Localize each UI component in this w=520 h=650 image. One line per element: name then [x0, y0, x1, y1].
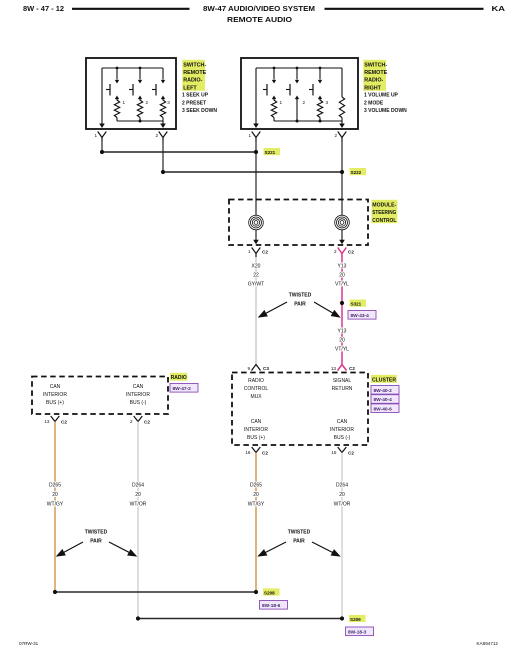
- switch contact blade 3: [309, 84, 313, 96]
- wire top bus right box: [256, 67, 342, 69]
- svg-text:RADIO-: RADIO-: [183, 78, 202, 84]
- resistor 3: [160, 100, 170, 121]
- twisted pair upper right arrow: [314, 302, 340, 317]
- svg-text:3: 3: [326, 100, 329, 105]
- resistor 1: [114, 100, 125, 121]
- svg-text:3: 3: [167, 100, 170, 105]
- svg-text:20: 20: [52, 492, 58, 498]
- splice S209 bus: [138, 618, 342, 620]
- svg-text:CAN: CAN: [251, 419, 262, 425]
- svg-text:S321: S321: [351, 301, 362, 306]
- svg-text:1: 1: [123, 100, 126, 105]
- svg-text:07RW-31: 07RW-31: [19, 641, 39, 646]
- junction dot S208 right: [254, 590, 258, 594]
- label switch-remote-radio-left: [182, 60, 206, 92]
- svg-text:2 MODE: 2 MODE: [364, 100, 384, 106]
- resistor 2: [137, 100, 148, 121]
- svg-text:WT/GY: WT/GY: [248, 502, 265, 508]
- wire switch branch 3 drop: [318, 68, 322, 84]
- svg-text:S222: S222: [351, 170, 362, 175]
- svg-text:20: 20: [339, 273, 345, 279]
- svg-text:2: 2: [334, 133, 337, 138]
- junction dot S209 left: [136, 616, 140, 620]
- twisted pair upper left arrow: [259, 302, 287, 317]
- header rule left: [72, 8, 190, 10]
- svg-text:C2: C2: [348, 250, 354, 255]
- svg-text:8W-40-4: 8W-40-4: [374, 397, 393, 403]
- connector radio pin 2 C2: [130, 416, 150, 425]
- svg-text:INTERIOR: INTERIOR: [126, 392, 150, 398]
- svg-text:1: 1: [94, 133, 97, 138]
- junction dot right box bus a: [296, 120, 299, 123]
- junction dot left box top bus b: [139, 67, 142, 70]
- splice S221 bus: [102, 151, 256, 153]
- svg-text:REMOTE: REMOTE: [364, 70, 387, 76]
- svg-text:15: 15: [331, 450, 337, 455]
- switch contact blade 2: [129, 84, 133, 96]
- link 8W-18-3: [346, 627, 374, 636]
- link 8W-43-4: [348, 311, 376, 320]
- label CLUSTER: [371, 375, 397, 384]
- svg-text:C2: C2: [348, 451, 354, 456]
- svg-text:C2: C2: [262, 451, 268, 456]
- switch lower contact 2: [138, 96, 142, 101]
- junction dot right box top bus a: [273, 67, 276, 70]
- cluster box: [232, 373, 368, 446]
- svg-text:PAIR: PAIR: [293, 539, 305, 545]
- junction dot S222 left: [161, 170, 165, 174]
- svg-text:13: 13: [44, 419, 50, 424]
- wire switch branch 3 drop: [161, 68, 165, 84]
- label S221: [264, 148, 281, 155]
- wire D265 WT/GY radio orange: [54, 422, 56, 593]
- label S222: [350, 168, 367, 175]
- switch contact blade 3: [152, 84, 156, 96]
- switch contact blade 2: [286, 84, 290, 96]
- svg-text:8W-47 AUDIO/VIDEO SYSTEM: 8W-47 AUDIO/VIDEO SYSTEM: [203, 4, 315, 13]
- svg-text:20: 20: [339, 338, 345, 344]
- svg-text:S209: S209: [350, 617, 361, 622]
- svg-text:MUX: MUX: [250, 394, 262, 400]
- wire left box pin1 vertical: [99, 68, 105, 128]
- wire D264 WT/OR cluster gray: [341, 453, 343, 619]
- junction dot right box top bus c: [319, 67, 322, 70]
- wire branch 2: [297, 99, 306, 121]
- svg-text:TWISTED: TWISTED: [288, 530, 311, 536]
- switch remote radio left box: [86, 58, 176, 129]
- svg-text:2: 2: [146, 100, 149, 105]
- connector right box pin 2: [334, 132, 346, 142]
- switch lower contact 3: [318, 96, 322, 101]
- wire bottom bus left box: [117, 120, 163, 122]
- svg-text:KA894712: KA894712: [477, 641, 499, 646]
- label S209: [349, 615, 366, 622]
- connector module pin 1 C2: [248, 248, 268, 258]
- svg-text:CONTROL: CONTROL: [372, 218, 397, 224]
- svg-text:20: 20: [339, 492, 345, 498]
- wire switch branch 1 drop: [115, 68, 119, 84]
- svg-text:WT/OR: WT/OR: [130, 502, 147, 508]
- label module steering control: [372, 200, 398, 224]
- wire top bus left box: [102, 67, 163, 69]
- wire D265 WT/GY cluster orange: [255, 453, 257, 593]
- wire switch branch 2 drop: [295, 68, 299, 84]
- connector cluster pin 15 C2 bottom: [331, 447, 354, 456]
- connector cluster pin 16 C2 bottom: [245, 447, 268, 456]
- svg-text:Y13: Y13: [338, 264, 347, 270]
- svg-text:C2: C2: [349, 366, 355, 371]
- svg-text:RADIO: RADIO: [171, 375, 187, 381]
- switch lower contact 2: [295, 96, 299, 101]
- link 8W-18-6: [260, 601, 288, 610]
- junction dot right box bus b: [319, 120, 322, 123]
- svg-text:LEFT: LEFT: [183, 85, 197, 91]
- svg-text:SWITCH-: SWITCH-: [364, 62, 387, 68]
- connector cluster pin 13 C2 top: [331, 365, 355, 372]
- svg-text:STEERING: STEERING: [372, 210, 396, 216]
- wire right box pin2 vertical: [339, 121, 345, 128]
- svg-text:1: 1: [248, 133, 251, 138]
- wire right pin2 down: [341, 142, 343, 201]
- svg-text:C3: C3: [263, 366, 269, 371]
- svg-text:D265: D265: [250, 483, 262, 489]
- resistor right box fixed: [339, 97, 344, 118]
- svg-text:20: 20: [253, 492, 259, 498]
- svg-text:WT/OR: WT/OR: [334, 502, 351, 508]
- switch lower contact 1: [272, 96, 276, 101]
- wire Y13 VT/YL magenta: [341, 257, 343, 364]
- svg-text:8W-40-2: 8W-40-2: [374, 388, 393, 394]
- junction dot S221 left: [100, 150, 104, 154]
- svg-text:INTERIOR: INTERIOR: [244, 427, 268, 433]
- svg-text:BUS (+): BUS (+): [46, 400, 64, 406]
- label S208: [263, 588, 280, 595]
- splice S222 bus: [163, 171, 342, 173]
- svg-text:INTERIOR: INTERIOR: [43, 392, 67, 398]
- wire right box pin1 vertical: [253, 68, 259, 128]
- svg-text:BUS (-): BUS (-): [334, 435, 351, 441]
- label twisted pair upper: [289, 293, 312, 308]
- svg-text:KA: KA: [492, 4, 506, 13]
- wire D264 WT/OR radio gray: [137, 422, 139, 619]
- svg-text:D264: D264: [336, 483, 348, 489]
- svg-text:3 VOLUME DOWN: 3 VOLUME DOWN: [364, 108, 407, 114]
- svg-text:Y13: Y13: [338, 329, 347, 335]
- svg-text:1 VOLUME UP: 1 VOLUME UP: [364, 93, 399, 99]
- svg-text:8W-40-6: 8W-40-6: [374, 406, 393, 412]
- svg-text:INTERIOR: INTERIOR: [330, 427, 354, 433]
- svg-text:WT/GY: WT/GY: [47, 502, 64, 508]
- svg-text:PAIR: PAIR: [90, 539, 102, 545]
- svg-text:TWISTED: TWISTED: [85, 530, 108, 536]
- svg-text:S221: S221: [265, 150, 276, 155]
- switch contact blade 1: [106, 84, 110, 96]
- splice S208 bus: [55, 591, 256, 593]
- wire right box resistor top: [341, 68, 343, 97]
- junction dot right box top bus b: [296, 67, 299, 70]
- svg-text:2: 2: [130, 419, 133, 424]
- junction dot S208 left: [53, 590, 57, 594]
- connector left box pin 1: [94, 132, 106, 142]
- connector right box pin 1: [248, 132, 260, 142]
- svg-text:8W-47-2: 8W-47-2: [173, 386, 192, 392]
- switch contact blade 1: [263, 84, 267, 96]
- junction dot S221 right: [254, 150, 258, 154]
- svg-text:VT/YL: VT/YL: [335, 347, 349, 353]
- connector left box pin 2: [155, 132, 167, 142]
- svg-text:1: 1: [280, 100, 283, 105]
- label twisted pair lower left: [85, 530, 108, 545]
- svg-text:8W-18-6: 8W-18-6: [262, 603, 281, 609]
- svg-text:GY/WT: GY/WT: [248, 282, 264, 288]
- link 8W-40-4: [371, 395, 399, 404]
- wire X20 GY/WT gray: [255, 257, 257, 364]
- svg-text:D264: D264: [132, 483, 144, 489]
- switch remote radio right box: [241, 58, 358, 129]
- label twisted pair lower right: [288, 530, 311, 545]
- svg-text:C2: C2: [144, 420, 150, 425]
- svg-text:MODULE-: MODULE-: [372, 202, 396, 208]
- svg-text:16: 16: [245, 450, 251, 455]
- svg-text:1: 1: [248, 249, 251, 254]
- label S321: [350, 300, 367, 307]
- svg-text:REMOTE AUDIO: REMOTE AUDIO: [227, 15, 292, 24]
- wire left box pin2 vertical: [160, 121, 166, 128]
- svg-text:2: 2: [155, 133, 158, 138]
- connector radio pin 13 C2: [44, 416, 67, 425]
- resistor 3: [317, 100, 328, 121]
- svg-text:20: 20: [135, 492, 141, 498]
- svg-text:D265: D265: [49, 483, 61, 489]
- svg-text:S208: S208: [264, 590, 275, 595]
- svg-text:1 SEEK UP: 1 SEEK UP: [182, 93, 209, 99]
- link 8W-47-2: [170, 384, 198, 393]
- clockspring coil right: [335, 200, 350, 245]
- junction dot left box bus: [139, 120, 142, 123]
- svg-text:2: 2: [334, 249, 337, 254]
- svg-text:TWISTED: TWISTED: [289, 293, 312, 299]
- junction dot S209 right: [340, 616, 344, 620]
- svg-text:8W-43-4: 8W-43-4: [351, 313, 370, 319]
- connector module pin 2 C2: [334, 248, 354, 258]
- module steering control box: [229, 200, 368, 246]
- twisted pair lower left arrow b: [109, 542, 136, 556]
- connector cluster pin 9 C3 top: [247, 365, 269, 372]
- radio box: [32, 377, 168, 415]
- switch lower contact 1: [115, 96, 119, 101]
- svg-text:RETURN: RETURN: [332, 386, 353, 392]
- label switch-remote-radio-right: [363, 60, 387, 92]
- svg-text:8W-18-3: 8W-18-3: [348, 629, 367, 635]
- svg-text:8W - 47 - 12: 8W - 47 - 12: [23, 4, 64, 13]
- link 8W-40-2: [371, 386, 399, 395]
- svg-text:3 SEEK DOWN: 3 SEEK DOWN: [182, 108, 217, 114]
- wire right pin1 down: [255, 142, 257, 201]
- svg-text:RADIO-: RADIO-: [364, 78, 383, 84]
- link 8W-40-6: [371, 404, 399, 413]
- svg-text:BUS (+): BUS (+): [247, 435, 265, 441]
- svg-text:BUS (-): BUS (-): [130, 400, 147, 406]
- svg-text:RIGHT: RIGHT: [364, 85, 381, 91]
- twisted pair lower right arrow b: [312, 542, 340, 556]
- twisted pair lower right arrow a: [259, 542, 287, 556]
- svg-text:PAIR: PAIR: [294, 302, 306, 308]
- wire switch branch 2 drop: [138, 68, 142, 84]
- svg-text:CAN: CAN: [50, 384, 61, 390]
- svg-text:CONTROL: CONTROL: [244, 386, 269, 392]
- svg-text:C2: C2: [61, 420, 67, 425]
- wire left pin2 to S222: [162, 142, 164, 173]
- svg-text:RADIO: RADIO: [248, 378, 264, 384]
- resistor 1: [271, 100, 282, 121]
- svg-text:9: 9: [247, 366, 250, 371]
- svg-text:SWITCH-: SWITCH-: [183, 62, 206, 68]
- label RADIO: [170, 373, 188, 381]
- wire right resistor tail: [341, 118, 343, 122]
- junction dot S321: [340, 301, 344, 305]
- svg-text:CAN: CAN: [133, 384, 144, 390]
- svg-text:2: 2: [303, 100, 306, 105]
- svg-text:REMOTE: REMOTE: [183, 70, 206, 76]
- svg-text:22: 22: [253, 273, 259, 279]
- clockspring coil left: [249, 200, 264, 245]
- switch lower contact 3: [161, 96, 165, 101]
- svg-text:2 PRESET: 2 PRESET: [182, 100, 206, 106]
- svg-text:13: 13: [331, 366, 337, 371]
- svg-text:VT/YL: VT/YL: [335, 282, 349, 288]
- wire bottom bus right box: [274, 120, 342, 122]
- header rule right: [325, 8, 484, 10]
- svg-text:SIGNAL: SIGNAL: [333, 378, 352, 384]
- svg-text:CAN: CAN: [337, 419, 348, 425]
- wire switch branch 1 drop: [272, 68, 276, 84]
- svg-text:CLUSTER: CLUSTER: [372, 377, 396, 383]
- wire left pin1 to S221: [101, 142, 103, 153]
- svg-text:X20: X20: [252, 264, 261, 270]
- junction dot left box top bus a: [116, 67, 119, 70]
- svg-text:C2: C2: [262, 250, 268, 255]
- twisted pair lower left arrow a: [57, 542, 83, 556]
- junction dot S222 right: [340, 170, 344, 174]
